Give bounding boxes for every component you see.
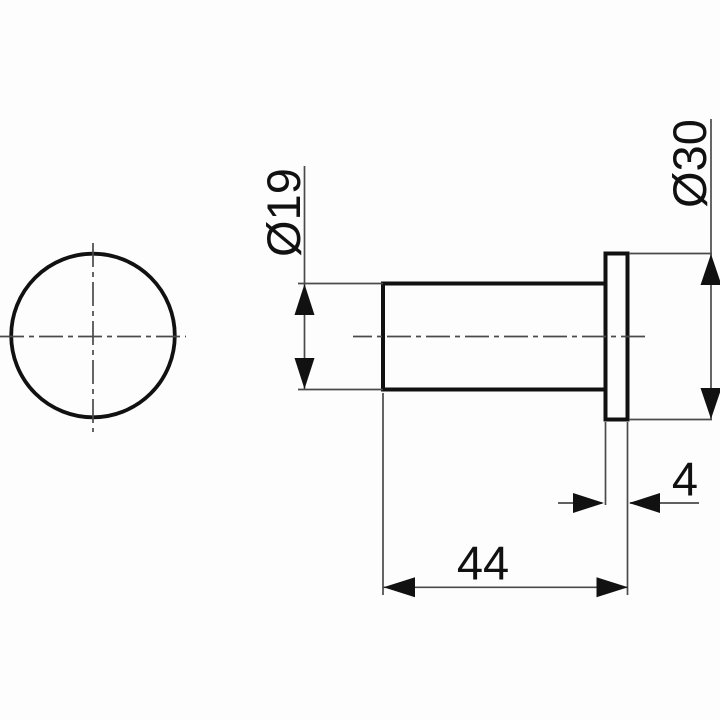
vertical centerline of front view (92, 243, 94, 432)
dimension Ø30: lower arrowhead (701, 388, 720, 419)
svg-text:4: 4 (672, 453, 698, 506)
dimension 4: right extension line (627, 422, 629, 595)
dimension Ø19: bottom extension line (298, 389, 383, 391)
dimension 44: left arrowhead (384, 577, 416, 597)
side view cylinder body (383, 284, 606, 390)
dimension Ø30: upper arrowhead (701, 254, 720, 285)
side view flange (606, 254, 628, 420)
dimension 44: left extension line (382, 393, 384, 595)
svg-text:44: 44 (457, 537, 509, 590)
svg-text:Ø30: Ø30 (663, 119, 716, 208)
side view centerline (353, 336, 649, 338)
dimension 4: right arrowhead (629, 493, 660, 513)
dimension Ø19: dimension line (304, 166, 306, 389)
dimension 4: right tail line (630, 502, 699, 504)
dimension Ø30: bottom extension line (629, 419, 712, 421)
dimension Ø19: upper arrowhead (295, 284, 315, 315)
dimension Ø19: lower arrowhead (295, 358, 315, 389)
svg-text:Ø19: Ø19 (257, 168, 310, 257)
dimension Ø30: dimension line (710, 119, 712, 419)
dimension 44: right arrowhead (597, 577, 629, 597)
horizontal centerline of front view (0, 336, 186, 338)
dimension 4: left tail line (558, 502, 602, 504)
front view circle (Ø30 face) (11, 254, 175, 418)
dimension 4: left extension line (605, 422, 607, 505)
dimension 4: left arrowhead (573, 493, 604, 513)
dimension 44: dimension line (384, 586, 629, 588)
dimension Ø19: top extension line (298, 283, 383, 285)
dimension Ø30: top extension line (629, 253, 712, 255)
